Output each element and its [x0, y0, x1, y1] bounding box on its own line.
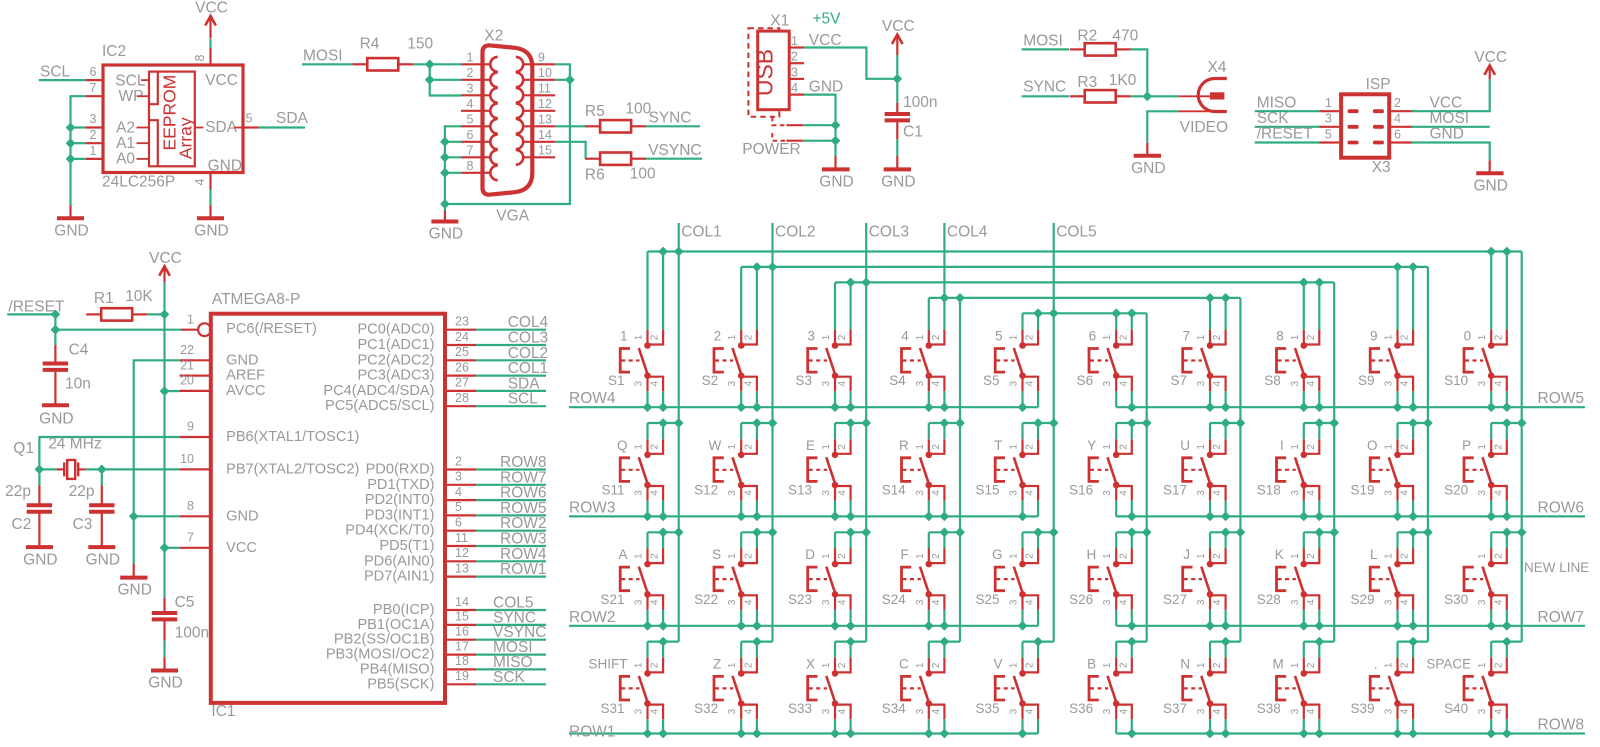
wire AVCC — [165, 390, 180, 392]
svg-text:VCC: VCC — [226, 540, 257, 556]
svg-text:3: 3 — [1196, 490, 1207, 496]
svg-text:4: 4 — [837, 380, 848, 386]
svg-text:15: 15 — [455, 610, 469, 624]
svg-text:SHIFT: SHIFT — [589, 656, 628, 671]
svg-text:4: 4 — [1400, 599, 1411, 605]
svg-text:MOSI: MOSI — [1023, 32, 1063, 49]
svg-text:1: 1 — [915, 662, 926, 668]
svg-text:2: 2 — [650, 444, 661, 450]
X2 pin 3 — [461, 94, 491, 96]
svg-text:COL5: COL5 — [1056, 224, 1097, 241]
svg-text:1: 1 — [727, 553, 738, 559]
VCC rail wire — [163, 314, 165, 547]
svg-text:1: 1 — [620, 329, 628, 344]
svg-text:9: 9 — [187, 420, 194, 434]
svg-text:4: 4 — [467, 97, 474, 111]
svg-text:S15: S15 — [975, 483, 999, 498]
svg-text:S: S — [712, 547, 721, 562]
svg-text:.: . — [1374, 656, 1378, 671]
svg-text:12: 12 — [538, 97, 552, 111]
net VSYNC wire — [476, 639, 546, 641]
svg-text:GND: GND — [1473, 177, 1507, 194]
junction — [441, 200, 449, 208]
junction — [426, 60, 434, 68]
net SDA wire — [259, 126, 305, 128]
junction — [862, 528, 870, 536]
switch S32 — [694, 638, 772, 738]
svg-text:S4: S4 — [889, 373, 906, 388]
svg-text:VIDEO: VIDEO — [1180, 119, 1228, 136]
svg-text:S24: S24 — [882, 592, 907, 607]
svg-text:AREF: AREF — [226, 368, 265, 384]
junction — [1237, 419, 1245, 427]
svg-text:4: 4 — [1494, 599, 1505, 605]
wire X4 shield to GND — [1147, 111, 1178, 143]
net COL4 right rail — [1239, 298, 1241, 642]
X1 pin 3 — [789, 78, 804, 80]
junction — [1518, 419, 1526, 427]
svg-text:ATMEGA8-P: ATMEGA8-P — [212, 291, 300, 308]
wire to S1 pins — [646, 252, 648, 330]
svg-text:4: 4 — [744, 490, 755, 496]
VCC symbol — [163, 266, 165, 282]
svg-text:PD0(RXD): PD0(RXD) — [366, 462, 435, 478]
svg-text:4: 4 — [1025, 490, 1036, 496]
wire to S3 pins — [834, 282, 836, 330]
svg-text:3: 3 — [1384, 599, 1395, 605]
capacitor C2 — [38, 486, 40, 506]
junction — [753, 263, 761, 271]
svg-text:R2: R2 — [1077, 28, 1097, 45]
junction — [1330, 419, 1338, 427]
wire VGA pins 9,10 down to GND — [445, 64, 570, 204]
X2 pin 13 — [523, 125, 555, 127]
ground — [209, 205, 211, 218]
svg-text:3: 3 — [727, 490, 738, 496]
svg-text:ROW8: ROW8 — [1538, 717, 1585, 734]
junction — [1143, 419, 1151, 427]
net COL4 bus line — [929, 297, 1241, 299]
IC1 pin 8 GND — [180, 515, 211, 517]
resistor R1 — [86, 313, 101, 315]
junction — [67, 139, 75, 147]
svg-text:8: 8 — [187, 499, 194, 513]
svg-text:SCL: SCL — [40, 64, 71, 81]
svg-text:1: 1 — [1290, 334, 1301, 340]
svg-text:SDA: SDA — [205, 119, 238, 136]
svg-text:1: 1 — [634, 334, 645, 340]
svg-text:1: 1 — [1102, 662, 1113, 668]
wire to S2 pins — [740, 267, 742, 330]
svg-text:S26: S26 — [1069, 592, 1093, 607]
svg-text:AVCC: AVCC — [226, 383, 265, 399]
svg-text:V: V — [993, 656, 1002, 671]
svg-text:2: 2 — [1494, 662, 1505, 668]
junction — [832, 137, 840, 145]
switch S22 — [694, 528, 772, 629]
IC1 pin 1 PC6(/RESET) — [181, 329, 198, 331]
svg-text:2: 2 — [791, 50, 798, 64]
svg-text:1: 1 — [1102, 334, 1113, 340]
svg-text:GND: GND — [429, 226, 463, 243]
switch S5 — [983, 329, 1038, 412]
svg-text:J: J — [1183, 547, 1190, 562]
wire /RESET to IC1 pin1 — [55, 314, 180, 329]
svg-text:4: 4 — [650, 599, 661, 605]
junction — [862, 419, 870, 427]
IC IC2 24LC256P EEPROM — [103, 65, 243, 173]
switch S31 — [589, 638, 679, 738]
svg-text:A2: A2 — [116, 119, 135, 136]
svg-text:27: 27 — [455, 376, 469, 390]
wire to C4 — [54, 330, 56, 345]
svg-text:3: 3 — [1290, 380, 1301, 386]
junction — [1237, 528, 1245, 536]
svg-text:6: 6 — [455, 516, 462, 530]
svg-text:S20: S20 — [1444, 483, 1468, 498]
svg-text:R1: R1 — [94, 290, 114, 307]
X3 pin 2 — [1389, 110, 1412, 112]
svg-text:4: 4 — [1306, 599, 1317, 605]
svg-text:100n: 100n — [903, 94, 937, 111]
IC1 pin 12 PD6(AIN0) — [445, 560, 476, 562]
svg-text:G: G — [992, 547, 1003, 562]
resistor R4 — [352, 63, 367, 65]
svg-text:F: F — [901, 547, 909, 562]
svg-text:PD5(T1): PD5(T1) — [379, 538, 434, 554]
svg-text:COL2: COL2 — [775, 224, 816, 241]
IC1 pin 20 AVCC — [180, 390, 211, 392]
junction — [956, 419, 964, 427]
svg-text:X3: X3 — [1372, 159, 1391, 176]
wire shield to GND — [803, 124, 835, 126]
svg-text:Z: Z — [713, 656, 721, 671]
svg-text:GND: GND — [39, 410, 73, 427]
svg-text:3: 3 — [1196, 599, 1207, 605]
EEPROM array symbol — [149, 72, 195, 167]
svg-text:SPACE: SPACE — [1426, 656, 1471, 671]
svg-text:3: 3 — [727, 599, 738, 605]
svg-text:3: 3 — [1384, 708, 1395, 714]
svg-text:T: T — [994, 438, 1002, 453]
svg-text:4: 4 — [1400, 708, 1411, 714]
svg-text:1: 1 — [634, 553, 645, 559]
junction — [1424, 419, 1432, 427]
net /RESET wire — [7, 313, 55, 315]
svg-text:2: 2 — [90, 128, 97, 142]
svg-text:PB3(MOSI/OC2): PB3(MOSI/OC2) — [326, 647, 435, 663]
IC1 pin 28 PC5(ADC5/SCL) — [445, 405, 476, 407]
svg-text:VSYNC: VSYNC — [648, 142, 701, 159]
net SCL wire — [39, 79, 86, 81]
svg-text:S1: S1 — [608, 373, 625, 388]
svg-text:PB7(XTAL2/TOSC2): PB7(XTAL2/TOSC2) — [226, 461, 359, 477]
connector X3 ISP header — [1341, 94, 1389, 157]
X2 pin 15 — [523, 156, 555, 158]
net COL5 label — [1053, 223, 1055, 313]
X2 pin 7 — [461, 156, 491, 158]
svg-text:GND: GND — [226, 508, 258, 524]
svg-text:1: 1 — [1196, 334, 1207, 340]
svg-text:7: 7 — [467, 143, 474, 157]
svg-text:22: 22 — [180, 343, 194, 357]
svg-text:3: 3 — [634, 599, 645, 605]
svg-text:24: 24 — [455, 330, 469, 344]
svg-text:7: 7 — [187, 531, 194, 545]
wire IC2 pin4 to GND — [209, 190, 211, 206]
svg-text:4: 4 — [455, 485, 462, 499]
IC1 pin 18 PB4(MISO) — [445, 668, 476, 670]
svg-text:17: 17 — [455, 639, 469, 653]
wire to S10 pins — [1490, 252, 1492, 330]
wire R4 to VGA — [413, 63, 461, 65]
net MOSI wire — [476, 653, 546, 655]
svg-text:18: 18 — [455, 654, 469, 668]
svg-text:E: E — [806, 438, 815, 453]
svg-text:S27: S27 — [1163, 592, 1187, 607]
svg-text:6: 6 — [90, 65, 97, 79]
X3 pin 3 — [1319, 126, 1341, 128]
svg-text:21: 21 — [180, 358, 194, 372]
switch S7 — [1170, 329, 1229, 412]
svg-text:C1: C1 — [903, 123, 923, 140]
svg-text:25: 25 — [455, 345, 469, 359]
net MISO wire — [1255, 110, 1319, 112]
svg-text:2: 2 — [1025, 444, 1036, 450]
svg-text:6: 6 — [1394, 127, 1401, 141]
svg-text:2: 2 — [931, 662, 942, 668]
svg-text:0: 0 — [1464, 329, 1472, 344]
svg-text:S17: S17 — [1163, 483, 1187, 498]
svg-text:2: 2 — [1212, 662, 1223, 668]
wire VCC to IC2 pin8 — [209, 39, 211, 48]
switch S37 — [1163, 638, 1240, 738]
svg-text:3: 3 — [1102, 708, 1113, 714]
IC1 pin 11 PD5(T1) — [445, 545, 476, 547]
ground — [444, 211, 446, 222]
svg-text:4: 4 — [1394, 112, 1401, 126]
svg-text:S32: S32 — [694, 701, 718, 716]
svg-text:S8: S8 — [1264, 373, 1281, 388]
svg-text:4: 4 — [650, 708, 661, 714]
svg-text:GND: GND — [117, 582, 151, 599]
svg-text:13: 13 — [538, 112, 552, 126]
net SCK wire — [1255, 126, 1319, 128]
svg-text:1: 1 — [1009, 444, 1020, 450]
switch S26 — [1069, 528, 1147, 629]
switch S15 — [975, 419, 1053, 520]
ground — [42, 403, 69, 407]
switch S6 — [1077, 329, 1136, 412]
switch S27 — [1163, 528, 1240, 629]
svg-text:S39: S39 — [1350, 701, 1374, 716]
svg-text:ROW1: ROW1 — [569, 724, 616, 741]
switch S10 — [1444, 329, 1511, 412]
wire to C3 — [101, 469, 103, 485]
net COL5 left rail — [1053, 313, 1055, 641]
svg-text:10: 10 — [538, 66, 552, 80]
svg-text:2: 2 — [744, 444, 755, 450]
svg-text:24 MHz: 24 MHz — [48, 436, 101, 453]
svg-text:3: 3 — [915, 380, 926, 386]
svg-text:C4: C4 — [69, 342, 89, 359]
IC1 pin 22 GND — [180, 359, 211, 361]
IC2 pin 3 A2 — [86, 126, 103, 128]
capacitor C5 — [152, 611, 177, 615]
net ROW1 wire — [569, 732, 1038, 734]
svg-text:4: 4 — [931, 380, 942, 386]
junction — [441, 138, 449, 146]
svg-text:4: 4 — [901, 329, 909, 344]
svg-text:1: 1 — [634, 662, 645, 668]
svg-text:3: 3 — [807, 329, 815, 344]
svg-text:3: 3 — [1477, 599, 1488, 605]
svg-text:3: 3 — [1009, 599, 1020, 605]
svg-text:MOSI: MOSI — [303, 48, 343, 65]
svg-text:1: 1 — [1477, 662, 1488, 668]
svg-text:IC1: IC1 — [211, 703, 235, 720]
X2 pin 11 — [523, 94, 555, 96]
svg-text:4: 4 — [837, 490, 848, 496]
svg-text:SCL: SCL — [508, 391, 539, 408]
switch S4 — [889, 329, 948, 412]
svg-text:14: 14 — [538, 128, 552, 142]
svg-text:4: 4 — [1212, 708, 1223, 714]
svg-text:3: 3 — [1290, 490, 1301, 496]
svg-text:4: 4 — [837, 708, 848, 714]
capacitor C1 — [896, 103, 898, 114]
svg-text:S9: S9 — [1358, 373, 1375, 388]
svg-text:1: 1 — [1009, 553, 1020, 559]
svg-text:S31: S31 — [600, 701, 624, 716]
connector X1 USB — [748, 28, 779, 117]
IC1 pin 7 VCC — [180, 547, 211, 549]
svg-text:ROW6: ROW6 — [1538, 499, 1585, 516]
X2 pin 14 — [523, 141, 555, 143]
IC1 pin 21 AREF — [180, 375, 211, 377]
svg-text:PC1(ADC1): PC1(ADC1) — [357, 337, 434, 353]
svg-text:PC2(ADC2): PC2(ADC2) — [357, 352, 434, 368]
X1 pin 2 — [789, 62, 804, 64]
switch S40 — [1426, 638, 1521, 738]
svg-text:19: 19 — [455, 669, 469, 683]
net ROW5 wire — [476, 514, 546, 516]
svg-text:SCK: SCK — [493, 669, 526, 686]
svg-text:3: 3 — [1290, 708, 1301, 714]
svg-text:X: X — [806, 656, 815, 671]
svg-text:S10: S10 — [1444, 373, 1468, 388]
svg-text:R: R — [899, 438, 909, 453]
capacitor C4 — [43, 362, 68, 366]
svg-text:MISO: MISO — [1257, 94, 1297, 111]
junction — [769, 528, 777, 536]
wire VCC node to C1 — [896, 79, 898, 103]
svg-text:2: 2 — [1212, 553, 1223, 559]
svg-text:5: 5 — [246, 112, 253, 126]
svg-text:1: 1 — [821, 553, 832, 559]
IC IC1 ATMEGA8-P — [211, 314, 445, 703]
junction — [52, 311, 60, 319]
IC1 pin 2 PD0(RXD) — [445, 468, 476, 470]
svg-text:28: 28 — [455, 391, 469, 405]
capacitor C3 — [101, 486, 103, 506]
svg-text:SDA: SDA — [276, 110, 309, 127]
svg-text:1: 1 — [90, 144, 97, 158]
resistor R2 — [1070, 48, 1085, 50]
svg-text:1: 1 — [821, 662, 832, 668]
svg-text:S6: S6 — [1077, 373, 1094, 388]
net ROW1 wire — [476, 575, 546, 577]
svg-text:D: D — [805, 547, 815, 562]
VCC symbol above C1 — [896, 55, 898, 79]
ground — [896, 156, 898, 169]
ground — [88, 545, 115, 549]
svg-text:PD7(AIN1): PD7(AIN1) — [364, 569, 435, 585]
svg-text:S5: S5 — [983, 373, 1000, 388]
net COL3 right rail — [1333, 282, 1335, 641]
VCC symbol — [1489, 65, 1491, 80]
svg-text:2: 2 — [1494, 334, 1505, 340]
junction — [1330, 528, 1338, 536]
junction — [98, 466, 106, 474]
svg-text:3: 3 — [1102, 380, 1113, 386]
capacitor C3 — [89, 503, 114, 507]
svg-text:4: 4 — [1025, 599, 1036, 605]
svg-text:S2: S2 — [702, 373, 719, 388]
X3 pin 4 — [1389, 126, 1412, 128]
junction — [675, 248, 683, 256]
svg-text:M: M — [1273, 656, 1284, 671]
svg-text:IC2: IC2 — [102, 43, 126, 60]
wire to S9 pins — [1396, 267, 1398, 330]
svg-text:ROW1: ROW1 — [500, 561, 547, 578]
svg-text:PD1(TXD): PD1(TXD) — [367, 477, 434, 493]
svg-text:4: 4 — [744, 380, 755, 386]
svg-text:2: 2 — [1400, 444, 1411, 450]
svg-text:3: 3 — [1009, 380, 1020, 386]
svg-text:B: B — [1087, 656, 1096, 671]
svg-text:3: 3 — [821, 599, 832, 605]
wire to VGA pins 2,3 — [430, 64, 443, 95]
svg-text:VCC: VCC — [149, 250, 182, 267]
svg-text:VCC: VCC — [195, 0, 228, 17]
net SYNC wire top right — [1022, 95, 1069, 97]
svg-text:R3: R3 — [1077, 74, 1097, 91]
svg-text:S34: S34 — [882, 701, 907, 716]
svg-text:X4: X4 — [1208, 59, 1227, 76]
svg-text:3: 3 — [1477, 380, 1488, 386]
svg-text:2: 2 — [1212, 334, 1223, 340]
svg-text:22p: 22p — [5, 483, 31, 500]
junction — [1034, 309, 1042, 317]
svg-text:1: 1 — [1102, 444, 1113, 450]
svg-text:VCC: VCC — [1430, 94, 1463, 111]
svg-text:2: 2 — [1119, 444, 1130, 450]
svg-text:PD4(XCK/T0): PD4(XCK/T0) — [345, 523, 434, 539]
svg-text:3: 3 — [90, 112, 97, 126]
net COL4 label — [943, 223, 945, 298]
svg-text:K: K — [1275, 547, 1284, 562]
svg-text:1: 1 — [1384, 553, 1395, 559]
svg-text:GND: GND — [809, 79, 843, 96]
switch S29 — [1350, 528, 1427, 629]
svg-text:2: 2 — [650, 334, 661, 340]
switch S21 — [600, 528, 678, 629]
svg-text:2: 2 — [1306, 662, 1317, 668]
IC2 pin 1 A0 — [86, 158, 103, 160]
wire to S7 pins — [1209, 298, 1211, 330]
svg-text:8: 8 — [193, 54, 207, 61]
